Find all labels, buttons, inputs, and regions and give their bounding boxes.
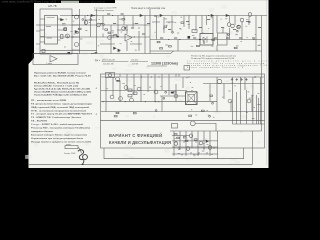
component bodies lower right (183, 137, 186, 138)
wire bus 5 (150, 50, 262, 52)
lower margin tint (29, 165, 253, 168)
transistor Q2 (75, 43, 79, 47)
capacitor C1 (61, 35, 64, 39)
svg-text:П-й каскад б/печатки: П-й каскад б/печатки (94, 9, 113, 12)
capacitor C6 (62, 24, 66, 26)
diode VD3 (68, 52, 71, 54)
junction dots bus3 (134, 36, 135, 37)
junction dots box A mid (103, 101, 104, 102)
wire lower right bus (170, 130, 262, 132)
diode VD20 (171, 92, 174, 94)
box B variant frame (101, 121, 265, 148)
wires lower right verticals (174, 131, 217, 159)
wire top bus (60, 15, 267, 17)
right section verticals (233, 77, 261, 124)
transistor Q22 (174, 94, 178, 98)
svg-text:П1 - включение сеть 220В: П1 - включение сеть 220В (31, 100, 67, 102)
box A main lower frame (101, 74, 265, 121)
transistor Q17 (130, 98, 134, 102)
svg-text:днище: днище (66, 144, 71, 146)
wire bus 6b (40, 49, 97, 51)
svg-text:более напряжение близкое к 0: более напряжение близкое к 0 (187, 67, 243, 69)
transistor Q15 (110, 95, 114, 99)
small transistors top right (228, 34, 230, 36)
node caption grey overlay (61, 1, 79, 3)
resistor row top bus (100, 14, 157, 34)
small transistors box A (163, 97, 165, 99)
svg-text:Т1 - второй замер 10-20 сек ВЕ: Т1 - второй замер 10-20 сек ВЕРХНИЙ ЧАСТ… (31, 113, 93, 116)
earth terminal box (65, 146, 78, 149)
transistor Q26 (199, 141, 203, 145)
op-amp U5 (50, 56, 57, 63)
component bodies box A (117, 80, 120, 81)
connector blob (188, 36, 191, 39)
wire right rail (261, 16, 263, 132)
ticks on box A top (120, 74, 179, 77)
svg-text:Проверка работы BU508. Схема в: Проверка работы BU508. Схема в блоке (34, 71, 87, 74)
relay K2 (106, 73, 115, 78)
wires box A horizontals (101, 77, 264, 112)
paper noise (25, 5, 261, 165)
svg-text:Исходя нижнего среднего не мен: Исходя нижнего среднего не менее чем на … (31, 141, 91, 143)
wire jog bus6 to bus5 (170, 51, 174, 54)
wires vertical interconnects top right (157, 16, 257, 52)
wire bus 4 (150, 39, 262, 41)
transistor Q10 (231, 24, 235, 28)
transistor Q21 (247, 99, 251, 103)
transistor Q25 (174, 142, 178, 146)
pins U1 right (58, 19, 64, 40)
svg-text:1к5+30н 2Вт: 1к5+30н 2Вт (103, 63, 114, 65)
wire segment y96 (160, 95, 186, 97)
sheet bottom border (29, 131, 252, 164)
U1 inner labels (46, 17, 55, 38)
svg-text:Плата защит и стабилизатора то: Плата защит и стабилизатора тока (131, 6, 165, 10)
transistor Q11 (237, 25, 241, 29)
svg-text:Резистор R5 задается минимальн: Резистор R5 задается минимальный ток (191, 55, 236, 58)
wire rail right of module (79, 9, 81, 54)
transistor Q18 (154, 90, 158, 94)
svg-text:АП-7Б: АП-7Б (48, 4, 57, 8)
small transistors top left (124, 27, 126, 29)
ticks lower right (176, 141, 214, 154)
transistor Q8 (240, 18, 244, 22)
junction dots bus4 (200, 39, 201, 40)
module box АП-7Б (40, 9, 72, 54)
relay K1 (192, 30, 197, 33)
svg-text:Т2 цепка включенных тиров десу: Т2 цепка включенных тиров десульфатации (31, 102, 93, 105)
diode VD2 (75, 31, 78, 33)
video top edge band (115, 0, 269, 2)
transistor Q9 (248, 13, 252, 17)
svg-text:зарядного баланс: зарядного баланс (31, 130, 54, 133)
driver box U4 (218, 33, 228, 45)
relay K3 (172, 124, 178, 129)
wire right section bottom (233, 123, 265, 125)
wires module to rail (72, 16, 80, 51)
diode row right box (232, 78, 246, 81)
svg-text:Вкл: С227-121. Вкл BU508 30,8В: Вкл: С227-121. Вкл BU508 30,8В. Режим 76… (34, 75, 92, 77)
transistor Q12 (116, 77, 120, 81)
IC U6 (186, 92, 198, 105)
wires lower right rows (172, 136, 218, 155)
transistor Q7 (227, 23, 231, 27)
svg-text:Управлением при этом десульфац: Управлением при этом десульфация была (31, 137, 84, 140)
nested border inner (104, 148, 244, 159)
op-amp U2 (125, 34, 132, 41)
svg-text:С хема: С хема (46, 63, 52, 65)
svg-text:ЛЕД+ красный ЛЕД- зеленый ЛЕ: ЛЕД+ красный ЛЕД- зеленый ЛЕД повторный (31, 106, 90, 109)
op-amp comparator box (33, 54, 78, 65)
svg-text:4×Сам 200-42: 1×С2-8,1 × С29: 4×Сам 200-42: 1×С2-8,1 × С29 мкА (34, 85, 79, 88)
svg-text:Быстрый поворот Т4 вкл задаетс: Быстрый поворот Т4 вкл задается коротким (31, 133, 88, 136)
component labels speckle lower right (174, 136, 213, 156)
capacitor C20 (184, 66, 190, 71)
junction dots bus1 (72, 15, 73, 16)
sheet border faint (266, 0, 268, 165)
svg-text:Заземл. 220В: Заземл. 220В (64, 153, 76, 155)
diodes on top bus (91, 14, 228, 16)
wires box A verticals (106, 77, 252, 112)
svg-text:R4 =: R4 = (95, 60, 101, 63)
transistor Q23 (190, 121, 195, 126)
transistor Q6 (122, 27, 126, 31)
transistor Q2a (66, 34, 70, 38)
svg-text:Т4 - 8СЛ078: Т4 - 8СЛ078 (31, 120, 48, 123)
junction blob (117, 36, 119, 38)
svg-text:вкл запись экрана 00:14:32: вкл запись экрана 00:14:32 (80, 1, 106, 3)
resistor cluster (128, 89, 132, 91)
svg-text:Кд=10,8к 33,9+9,6к 2Д: В103+2: Кд=10,8к 33,9+9,6к 2Д: В103+26,4к 107+16… (34, 88, 91, 91)
transistor Q28 (208, 146, 212, 150)
transistor Q20 (228, 99, 232, 103)
transistor Q16 (119, 97, 123, 101)
diode VD1 (61, 19, 64, 21)
svg-text:0,8×2В: 0,8×2В (132, 62, 139, 65)
svg-text:R143+Rн=R165,- Rн=3к23 (или: R143+Rн=R165,- Rн=3к23 (или R) (34, 82, 79, 85)
transistor Q19 (217, 79, 221, 83)
svg-text:Резистор R30 - настройка миним: Резистор R30 - настройка минимум Т2 (30м… (31, 127, 90, 130)
svg-text:Умкв=15мВ/В 85мкС 0,5×16,4мк: Умкв=15мВ/В 85мкС 0,5×16,4мкВ 0,5МГц С=2… (34, 90, 92, 93)
svg-text:КАЧЕЛИ И ДЕСУЛЬФАТАЦИЯ: КАЧЕЛИ И ДЕСУЛЬФАТАЦИЯ (109, 140, 171, 145)
capacitor C5 (64, 28, 67, 31)
svg-text:С и ц.р. - ФСВРС 0+223 - любой: С и ц.р. - ФСВРС 0+223 - любой импульсны… (31, 123, 84, 126)
component bodies top right (160, 48, 163, 49)
junction dots box A top (255, 76, 256, 77)
wire jumpers top (85, 20, 174, 44)
diode VD10 (206, 140, 208, 142)
LED HL2 (118, 49, 121, 51)
svg-text:Тмин=0,4мА/Вт Р=Вт/Дж 0,25×1: Тмин=0,4мА/Вт Р=Вт/Дж 0,25×1,6 ВА/мин 26… (34, 93, 88, 96)
optocoupler U3 (200, 34, 213, 46)
wire to clip (78, 147, 81, 153)
component labels speckle top right (154, 17, 260, 46)
paper sheet (29, 0, 269, 168)
component labels speckle top left (64, 19, 140, 52)
transistor Q27 (186, 147, 190, 151)
transistor Q5 (108, 36, 112, 40)
svg-text:Т2 - 8ЛВ078 Т.В. Стабилизатор: Т2 - 8ЛВ078 Т.В. Стабилизатор Частота (31, 116, 82, 119)
svg-text:(285×2,45)+3В: (285×2,45)+3В (102, 59, 115, 62)
transistor Q14 (137, 87, 141, 91)
svg-text:П ГВ - источником напряжения в: П ГВ - источником напряжения включенный (31, 109, 87, 112)
svg-text:12308 (123Ома): 12308 (123Ома) (151, 62, 179, 66)
transistor Q24 (189, 134, 193, 138)
wire bus 2 (40, 24, 150, 26)
transistor Q4 (97, 23, 101, 27)
transistor Q13 (124, 86, 128, 90)
wires vertical interconnects top (85, 9, 150, 54)
IC U1 КР1033 (45, 16, 58, 45)
pins U1 left (36, 19, 45, 44)
wire bus 6 (33, 53, 170, 55)
svg-text:ВАРИАНТ С ФУНКЦИЕЙ: ВАРИАНТ С ФУНКЦИЕЙ (109, 133, 162, 138)
LED HL1 (114, 47, 117, 49)
wire collector Q23 (196, 123, 217, 131)
component labels speckle box A (107, 77, 261, 118)
transistor Q1 (75, 15, 79, 19)
crocodile clip scribble (78, 150, 84, 160)
wire bus 3 (40, 36, 150, 38)
resistor R1 (42, 50, 45, 53)
diode arrow on bus6 (91, 53, 96, 54)
component bodies top left (75, 32, 78, 33)
transistor Q3 (84, 21, 88, 25)
resistor row right half (160, 19, 261, 38)
